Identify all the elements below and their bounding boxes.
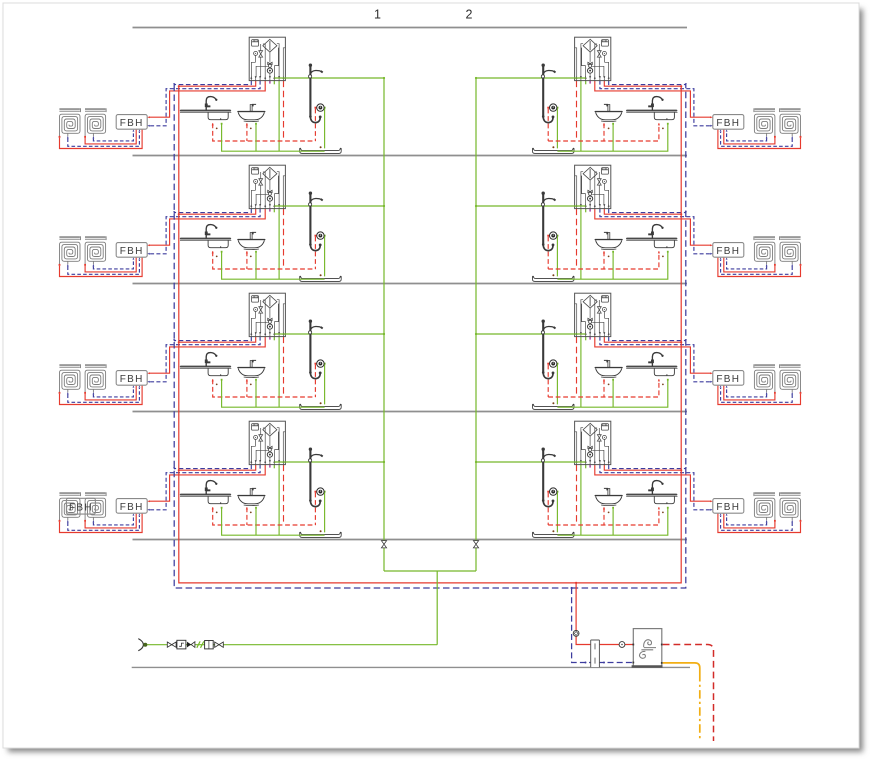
shut-off valve 1 bbox=[167, 642, 176, 647]
flat unit left, floor 1 (coils, FBH, HIU, sink, basin) bbox=[59, 421, 386, 535]
heating supply drop to heat source bbox=[576, 583, 633, 645]
shower and bathtub right, floor 2 bbox=[532, 320, 574, 410]
shut-off valve right riser bbox=[473, 541, 478, 548]
shut-off valve 2 bbox=[215, 642, 224, 647]
kitchen sink right, floor 1 bbox=[626, 481, 677, 504]
svg-text:FBH: FBH bbox=[716, 502, 740, 513]
drain points left, floor 2 bbox=[216, 384, 218, 386]
floor line bbox=[133, 155, 688, 157]
floor line bbox=[133, 411, 688, 413]
hot water distribution left, floor 3 bbox=[212, 251, 316, 269]
district heating supply out (red dashed) bbox=[663, 645, 714, 742]
drain points right, floor 4 bbox=[608, 127, 610, 129]
heating return drop to heat source bbox=[572, 588, 634, 663]
svg-text:FBH: FBH bbox=[120, 374, 144, 385]
floor line level 5 (roof datum) bbox=[133, 27, 688, 29]
flat unit right (mirrored), floor 2 bbox=[475, 293, 802, 407]
hot water distribution right, floor 1 bbox=[548, 507, 660, 525]
shower and bathtub right, floor 3 bbox=[532, 192, 574, 282]
svg-text:FBH: FBH bbox=[716, 374, 740, 385]
svg-text:FBH: FBH bbox=[120, 118, 144, 129]
cold water distribution left, floor 4 bbox=[221, 123, 325, 151]
drain points left, floor 4 bbox=[216, 127, 218, 129]
cold water distribution left, floor 2 bbox=[221, 379, 325, 407]
floor line bbox=[133, 539, 688, 541]
heating supply riser red left+collector bbox=[179, 86, 681, 583]
circulation pump bbox=[573, 631, 579, 637]
shut-off valve left riser bbox=[381, 541, 386, 548]
cold water distribution left, floor 3 bbox=[221, 251, 325, 279]
hot water distribution left, floor 2 bbox=[212, 379, 316, 397]
flat unit left, floor 2 (coils, FBH, HIU, sink, basin) bbox=[59, 293, 386, 407]
cold water riser green left bbox=[383, 78, 385, 571]
shower and bathtub left, floor 4 bbox=[299, 63, 341, 153]
pipe break symbol bbox=[197, 641, 204, 647]
kitchen sink left, floor 4 bbox=[180, 97, 231, 120]
kitchen sink left, floor 3 bbox=[180, 225, 231, 248]
shower and bathtub right, floor 1 bbox=[532, 448, 574, 538]
kitchen sink right, floor 3 bbox=[626, 225, 677, 248]
kitchen sink right, floor 2 bbox=[626, 353, 677, 376]
cold water distribution right, floor 1 bbox=[557, 507, 668, 535]
shower and bathtub left, floor 2 bbox=[299, 320, 341, 410]
flat unit right (mirrored), floor 3 bbox=[475, 165, 802, 279]
drain points right, floor 2 bbox=[608, 384, 610, 386]
svg-text:FBH: FBH bbox=[69, 502, 93, 513]
kitchen sink left, floor 2 bbox=[180, 353, 231, 376]
svg-text:2: 2 bbox=[466, 8, 473, 22]
gas / secondary line (orange) bbox=[663, 663, 700, 673]
flat unit right (mirrored), floor 4 bbox=[475, 37, 802, 151]
svg-text:FBH: FBH bbox=[716, 246, 740, 257]
heat meter bbox=[591, 640, 600, 667]
ground line bbox=[132, 666, 690, 668]
floor line bbox=[133, 283, 688, 285]
cold water header between risers bbox=[384, 571, 476, 645]
hot water distribution left, floor 4 bbox=[212, 123, 316, 141]
flat unit left, floor 4 (coils, FBH, HIU, sink, basin) bbox=[59, 37, 386, 151]
cold water service main bbox=[147, 644, 438, 646]
cold water distribution right, floor 3 bbox=[557, 251, 668, 279]
svg-text:FBH: FBH bbox=[716, 118, 740, 129]
shower and bathtub left, floor 3 bbox=[299, 192, 341, 282]
cold water distribution right, floor 2 bbox=[557, 379, 668, 407]
hot water distribution left, floor 1 bbox=[212, 507, 316, 525]
svg-text:FBH: FBH bbox=[120, 502, 144, 513]
shower and bathtub left, floor 1 bbox=[299, 448, 341, 538]
shower and bathtub right, floor 4 bbox=[532, 63, 574, 153]
cold water distribution left, floor 1 bbox=[221, 507, 325, 535]
drain points left, floor 1 bbox=[216, 512, 218, 514]
flat unit right (mirrored), floor 1 bbox=[475, 421, 802, 535]
extra FBH box over coils ground floor left bbox=[66, 498, 95, 514]
kitchen sink left, floor 1 bbox=[180, 481, 231, 504]
heat source / boiler bbox=[632, 629, 663, 667]
kitchen sink right, floor 4 bbox=[626, 97, 677, 120]
check valve bbox=[187, 642, 195, 648]
drain points right, floor 3 bbox=[608, 256, 610, 258]
water meter bbox=[177, 640, 186, 649]
drain points right, floor 1 bbox=[608, 512, 610, 514]
drain points left, floor 3 bbox=[216, 256, 218, 258]
flat unit left, floor 3 (coils, FBH, HIU, sink, basin) bbox=[59, 165, 386, 279]
heating return riser blue left+collector bbox=[174, 85, 686, 588]
pump 2 bbox=[619, 642, 625, 648]
filter bbox=[205, 641, 214, 649]
svg-text:1: 1 bbox=[374, 8, 381, 22]
hot water distribution right, floor 3 bbox=[548, 251, 660, 269]
cold water distribution right, floor 4 bbox=[557, 123, 668, 151]
water main connection symbol bbox=[138, 639, 147, 651]
cold water riser green right bbox=[475, 78, 477, 571]
hot water distribution right, floor 4 bbox=[548, 123, 660, 141]
hot water distribution right, floor 2 bbox=[548, 379, 660, 397]
svg-text:FBH: FBH bbox=[120, 246, 144, 257]
